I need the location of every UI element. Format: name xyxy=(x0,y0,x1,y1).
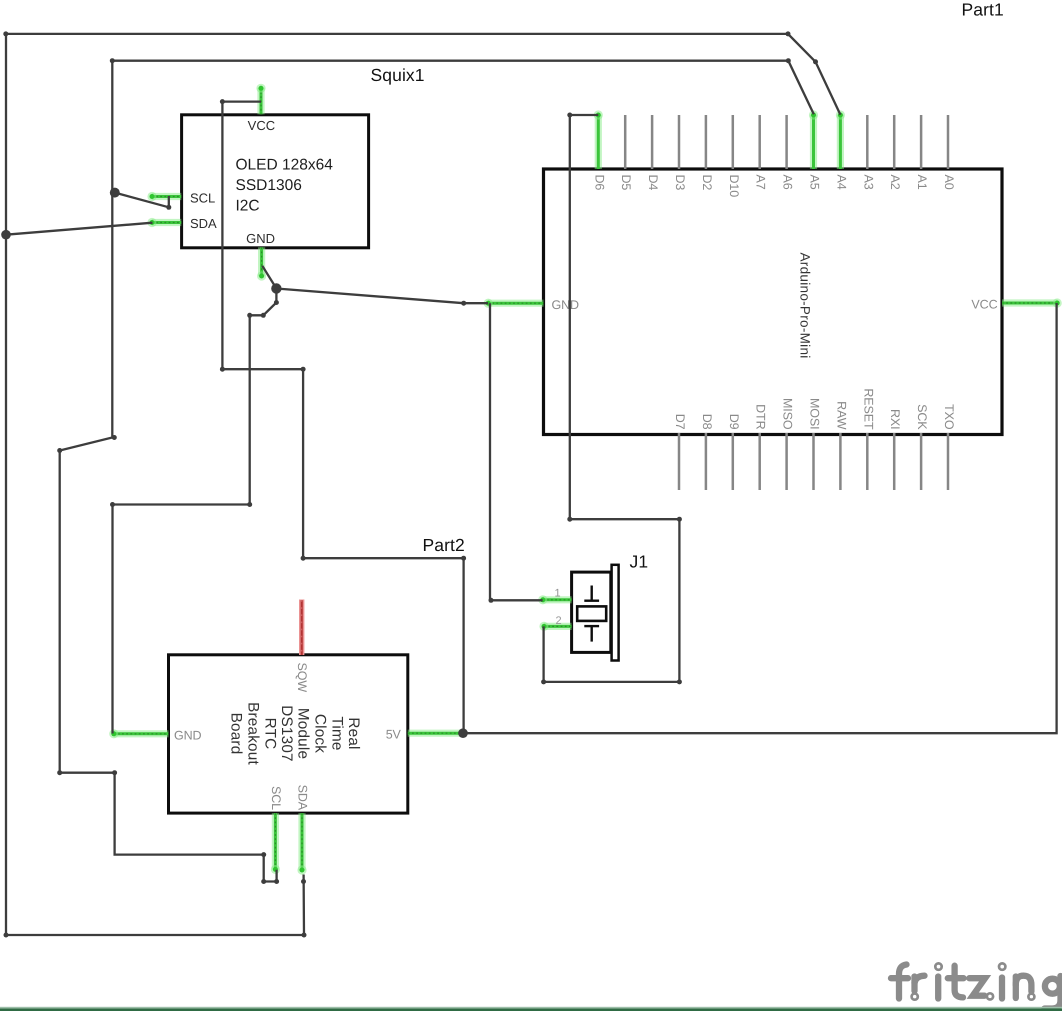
wire GND OLED to junction xyxy=(262,266,276,289)
wire A4 net bottom run xyxy=(6,875,304,936)
OLED pin label VCC xyxy=(248,118,275,133)
RTC pin label SQW xyxy=(295,663,309,693)
OLED display Squix1 body xyxy=(182,115,369,248)
wire GND junction to Arduino GND xyxy=(276,289,488,304)
RTC pin label 5V xyxy=(386,728,402,742)
Arduino pin D10 xyxy=(732,115,735,169)
wire A5 net top run xyxy=(112,61,814,114)
OLED pin VCC xyxy=(256,84,265,115)
pin label A4 xyxy=(834,175,848,190)
svg-text:VCC: VCC xyxy=(248,118,275,133)
wire A4 net to OLED SDA xyxy=(6,223,153,235)
svg-text:Part1: Part1 xyxy=(962,0,1004,20)
svg-text:5V: 5V xyxy=(386,728,402,742)
pin label A6 xyxy=(781,175,795,190)
wire VCC bottom run to Arduino VCC xyxy=(464,303,1057,733)
RTC pin SDA xyxy=(297,813,306,875)
pin label D4 xyxy=(646,175,660,191)
svg-text:Board: Board xyxy=(228,713,245,755)
svg-text:GND: GND xyxy=(552,298,580,312)
wire A4 net top run xyxy=(6,34,840,115)
pin label D5 xyxy=(619,175,633,191)
wire D6 to J1 pin2 xyxy=(544,115,680,682)
svg-text:D6: D6 xyxy=(592,175,606,191)
RTC pin SQW (red, unconnected) xyxy=(299,600,304,656)
svg-text:D8: D8 xyxy=(700,414,714,430)
Arduino-Pro-Mini Part1 body xyxy=(544,169,1003,435)
svg-text:Squix1: Squix1 xyxy=(371,65,425,85)
J1 pin number 2 xyxy=(555,615,561,627)
pin label D8 xyxy=(700,414,714,430)
Arduino pin D3 xyxy=(678,115,681,169)
OLED label Squix1 xyxy=(371,65,425,85)
svg-text:DS1307: DS1307 xyxy=(278,705,295,761)
buzzer J1 crystal symbol xyxy=(577,586,606,642)
svg-text:D10: D10 xyxy=(727,175,741,198)
svg-text:RESET: RESET xyxy=(861,388,875,430)
svg-text:SDA: SDA xyxy=(190,216,217,231)
Arduino pin D4 xyxy=(651,115,654,169)
OLED pin SDA xyxy=(147,218,181,227)
OLED pin label SCL xyxy=(190,191,215,206)
pin label SCK xyxy=(915,404,929,430)
svg-text:J1: J1 xyxy=(630,552,649,572)
Arduino pin RAW xyxy=(839,433,842,490)
svg-text:Arduino-Pro-Mini: Arduino-Pro-Mini xyxy=(798,253,813,359)
svg-text:SQW: SQW xyxy=(295,663,309,693)
Arduino pin MOSI xyxy=(812,433,815,490)
Arduino pin TXO xyxy=(947,433,950,490)
svg-text:MOSI: MOSI xyxy=(808,398,822,430)
label Part1 xyxy=(962,0,1004,20)
pin label RXI xyxy=(888,409,902,430)
svg-text:D3: D3 xyxy=(673,175,687,191)
wire A4 net left vertical xyxy=(5,34,7,935)
svg-text:Part2: Part2 xyxy=(423,535,465,555)
Arduino pin D7 xyxy=(678,433,681,490)
pin label TXO xyxy=(942,404,956,430)
wire A5 net to OLED SCL xyxy=(115,193,169,208)
bottom bar xyxy=(0,1007,1062,1011)
svg-text:MISO: MISO xyxy=(781,398,795,430)
OLED pin label GND xyxy=(246,231,275,246)
pin label MISO xyxy=(781,398,795,430)
J1 pin 2 xyxy=(539,622,571,631)
svg-text:A3: A3 xyxy=(861,175,875,190)
pin label D2 xyxy=(700,175,714,191)
Arduino pin D9 xyxy=(732,433,735,490)
J1 pin number 1 xyxy=(554,588,560,600)
svg-text:A6: A6 xyxy=(781,175,795,190)
svg-text:I2C: I2C xyxy=(236,197,260,214)
RTC pin 5V xyxy=(408,730,463,737)
svg-text:Time: Time xyxy=(328,716,345,750)
OLED pin label SDA xyxy=(190,216,217,231)
svg-text:SDA: SDA xyxy=(296,785,310,811)
RTC pin SCL xyxy=(271,813,280,874)
svg-text:VCC: VCC xyxy=(971,298,997,312)
pin label A3 xyxy=(861,175,875,190)
Arduino pin D2 xyxy=(705,115,708,169)
pin label D6 xyxy=(592,175,606,191)
Arduino pin A5 xyxy=(809,110,818,169)
Arduino-Pro-Mini title xyxy=(798,253,813,359)
pin label D3 xyxy=(673,175,687,191)
Arduino pin GND xyxy=(484,299,544,308)
OLED pin GND xyxy=(257,247,266,280)
svg-text:Clock: Clock xyxy=(312,714,329,753)
buzzer J1 body xyxy=(572,565,619,661)
svg-text:A0: A0 xyxy=(942,175,956,190)
svg-text:A7: A7 xyxy=(754,175,768,190)
wire A5 net long route xyxy=(60,61,277,882)
svg-text:SCL: SCL xyxy=(269,786,283,810)
Arduino pin A1 xyxy=(920,115,923,169)
svg-text:SCL: SCL xyxy=(190,191,215,206)
svg-text:1: 1 xyxy=(554,588,560,600)
Arduino pin A4 xyxy=(836,110,845,169)
RTC title text xyxy=(228,702,362,765)
pin label RESET xyxy=(861,388,875,430)
pin label RAW xyxy=(834,401,848,430)
label Part2 xyxy=(423,535,465,555)
pin label A0 xyxy=(942,175,956,190)
svg-text:SSD1306: SSD1306 xyxy=(236,177,302,194)
wire VCC OLED route xyxy=(222,102,463,734)
svg-text:D7: D7 xyxy=(673,414,687,430)
svg-text:RAW: RAW xyxy=(834,401,848,430)
junction node GND xyxy=(271,283,281,293)
OLED pin SCL xyxy=(147,192,181,201)
svg-text:DTR: DTR xyxy=(754,404,768,429)
Arduino pin A3 xyxy=(866,115,869,169)
svg-text:SCK: SCK xyxy=(915,404,929,430)
svg-text:Breakout: Breakout xyxy=(244,702,261,765)
svg-text:TXO: TXO xyxy=(942,404,956,430)
pin label GND xyxy=(552,298,580,312)
pin label A2 xyxy=(888,175,902,190)
wire GND junction to RTC GND xyxy=(113,289,277,734)
pin label A5 xyxy=(808,175,822,190)
svg-text:Real: Real xyxy=(345,717,362,749)
Arduino pin RESET xyxy=(866,433,869,490)
svg-text:GND: GND xyxy=(174,728,202,742)
Arduino pin MISO xyxy=(785,433,788,490)
junction node VCC-5V xyxy=(458,728,468,738)
svg-text:D9: D9 xyxy=(727,414,741,430)
pin label D10 xyxy=(727,175,741,198)
svg-text:A2: A2 xyxy=(888,175,902,190)
wire bend points xyxy=(3,31,818,937)
junction node SCL-A5 xyxy=(110,188,120,198)
Arduino pin D8 xyxy=(705,433,708,490)
RTC pin label SCL xyxy=(269,786,283,810)
pin label D9 xyxy=(727,414,741,430)
OLED value text xyxy=(236,157,334,215)
label J1 xyxy=(630,552,649,572)
svg-text:A4: A4 xyxy=(834,175,848,190)
svg-text:RTC: RTC xyxy=(261,718,278,750)
RTC pin label SDA xyxy=(296,785,310,811)
svg-text:OLED 128x64: OLED 128x64 xyxy=(236,157,334,174)
svg-text:GND: GND xyxy=(246,231,275,246)
svg-text:A5: A5 xyxy=(808,175,822,190)
svg-text:D5: D5 xyxy=(619,175,633,191)
Arduino pin A0 xyxy=(947,115,950,169)
Arduino pin SCK xyxy=(920,433,923,490)
svg-text:D2: D2 xyxy=(700,175,714,191)
Arduino pin RXI xyxy=(893,433,896,490)
junction node SDA-A4 xyxy=(1,230,11,240)
pin label D7 xyxy=(673,414,687,430)
Arduino pin A2 xyxy=(893,115,896,169)
svg-text:D4: D4 xyxy=(646,175,660,191)
fritzing watermark xyxy=(891,963,1061,1008)
svg-text:A1: A1 xyxy=(915,175,929,190)
Arduino pin VCC xyxy=(1002,298,1062,307)
RTC pin GND xyxy=(109,729,168,738)
pin label DTR xyxy=(754,404,768,429)
Arduino pin D5 xyxy=(624,115,627,169)
RTC DS1307 Part2 body xyxy=(169,655,408,813)
RTC pin label GND xyxy=(174,728,202,742)
Arduino pin A7 xyxy=(758,115,761,169)
Arduino pin A6 xyxy=(785,115,788,169)
pin label VCC xyxy=(971,298,997,312)
Arduino pin D6 xyxy=(594,110,603,169)
wire GND Arduino to J1 pin1 xyxy=(490,303,543,600)
svg-text:2: 2 xyxy=(555,615,561,627)
pin label MOSI xyxy=(808,398,822,430)
pin label A7 xyxy=(754,175,768,190)
pin label A1 xyxy=(915,175,929,190)
Arduino pin DTR xyxy=(758,433,761,490)
svg-text:Module: Module xyxy=(295,708,312,759)
J1 pin 1 xyxy=(538,595,571,604)
svg-text:RXI: RXI xyxy=(888,409,902,430)
